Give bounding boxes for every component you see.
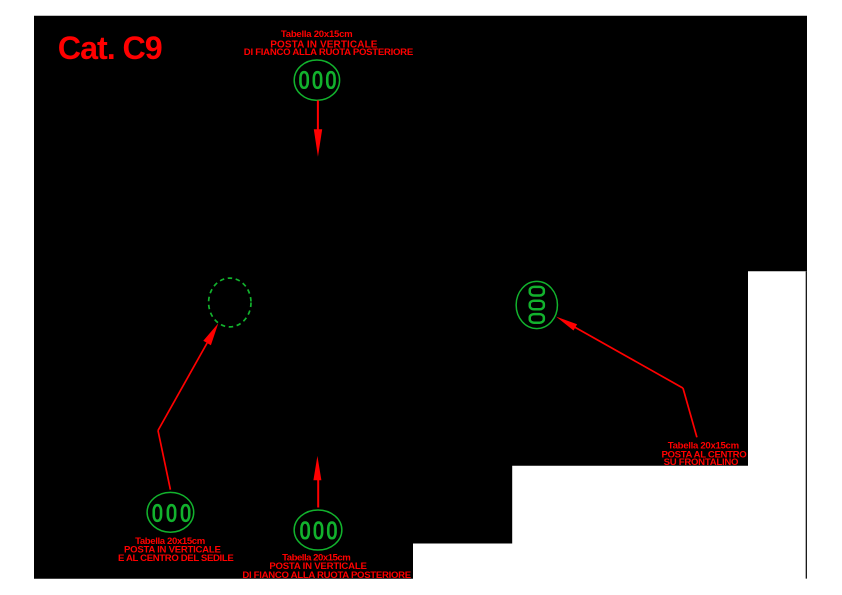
svg-text:Tabella 20x15cm: Tabella 20x15cm [281,29,353,40]
node C4 plate circle right [516,281,557,328]
svg-text:E AL CENTRO DEL SEDILE: E AL CENTRO DEL SEDILE [118,553,234,564]
wire arrow A1 shaft [317,100,319,130]
wire arrow A1 head [314,129,322,157]
svg-text:DI FIANCO ALLA RUOTA POSTERIOR: DI FIANCO ALLA RUOTA POSTERIORE [242,570,411,581]
wire arrow A4 shaft seg2 [683,388,697,437]
node C4 digit 0 rotated [530,301,544,310]
node C3 digit 0 [301,523,308,539]
node C2 digit 0 [154,505,161,521]
node C2 digit 0 [182,505,189,521]
wire arrow A3 head [313,456,321,480]
svg-text:Cat. C9: Cat. C9 [58,30,162,66]
node C1 plate circle top [294,60,339,100]
wire arrow A2 shaft seg1 [158,343,207,431]
node C1 digit 0 [300,72,307,88]
node C1 digit 0 [327,72,334,88]
node C1 digit 0 [314,72,321,88]
node C3 digit 0 [328,523,335,539]
node C3 digit 0 [315,523,322,539]
wire frame right border line [805,271,807,578]
node C4 digit 0 rotated [530,287,544,296]
node C3 plate circle bottom [294,510,342,550]
wire arrow A4 head [556,317,577,331]
wire arrow A2 shaft seg2 [158,431,170,490]
wire arrow A2 head [203,323,218,345]
svg-text:SU FRONTALINO: SU FRONTALINO [664,457,739,468]
node C2 plate circle seat [147,492,194,532]
node C2 digit 0 [168,505,175,521]
wire arrow A3 shaft [317,479,319,508]
node C4 digit 0 rotated [530,314,544,323]
wire arrow A4 shaft seg1 [575,327,684,388]
node dashed position ellipse [209,278,251,327]
svg-text:DI FIANCO ALLA RUOTA POSTERIOR: DI FIANCO ALLA RUOTA POSTERIORE [244,47,414,58]
